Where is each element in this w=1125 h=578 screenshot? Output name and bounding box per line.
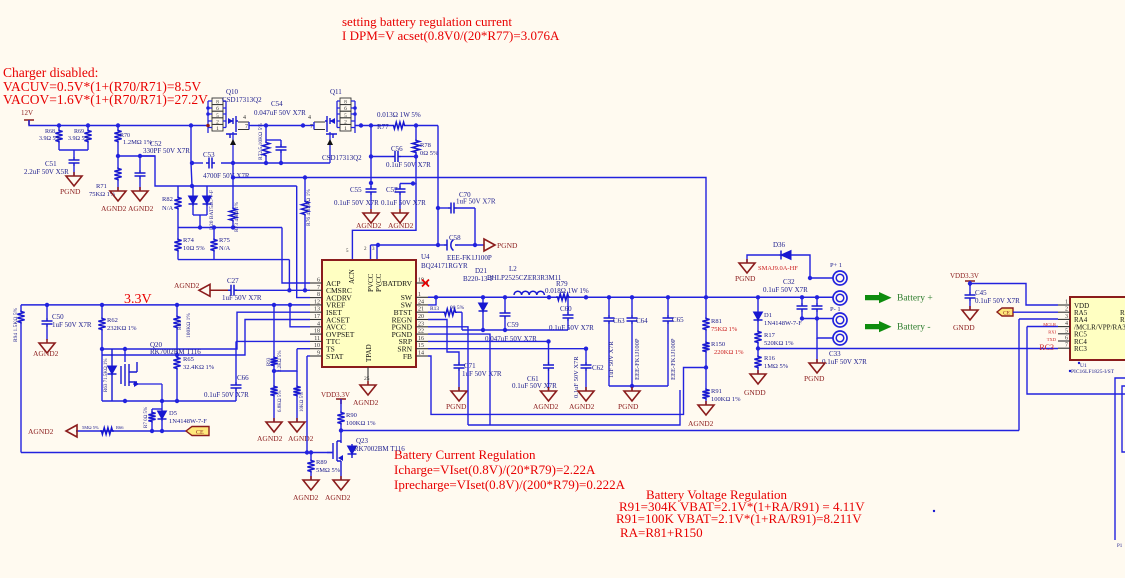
wire AVCC stub <box>290 305 310 327</box>
svg-text:75KΩ 1%: 75KΩ 1% <box>711 326 738 333</box>
svg-text:Battery Current Regulation: Battery Current Regulation <box>394 447 536 462</box>
svg-text:R91: R91 <box>711 388 722 395</box>
svg-text:4700F 50V X7R: 4700F 50V X7R <box>203 172 250 180</box>
capacitor C60 <box>567 297 569 312</box>
port CE tag left <box>186 427 209 436</box>
svg-text:0.018Ω 1W 1%: 0.018Ω 1W 1% <box>545 287 589 295</box>
svg-text:9: 9 <box>317 351 320 357</box>
svg-text:1uF 50V X7R: 1uF 50V X7R <box>52 321 92 329</box>
svg-text:PGND: PGND <box>60 187 81 196</box>
ground AGND2 R91 <box>705 401 707 405</box>
wire R78 to C57 <box>400 157 416 184</box>
wire FB to divider <box>428 356 706 414</box>
capacitor C64 <box>631 297 633 315</box>
connector P-2 <box>833 331 847 345</box>
svg-text:R66: R66 <box>116 425 124 430</box>
svg-text:3: 3 <box>1065 314 1068 320</box>
wire R77 node <box>406 125 438 127</box>
svg-text:RXI: RXI <box>1048 330 1056 335</box>
svg-text:C32: C32 <box>783 278 795 286</box>
ground AGND2 R89 <box>310 476 312 480</box>
ground AGND2 arrow at C27 <box>199 284 210 296</box>
svg-text:P+ 1: P+ 1 <box>830 262 842 269</box>
svg-text:EEE-FK1J100P: EEE-FK1J100P <box>447 254 492 262</box>
svg-text:00 5%: 00 5% <box>450 305 465 311</box>
svg-text:RA1: RA1 <box>1120 316 1125 324</box>
power port PGND right <box>484 239 495 251</box>
ground AGND2 C50 <box>46 339 48 343</box>
resistor R76 <box>304 178 306 201</box>
svg-text:232KΩ 1%: 232KΩ 1% <box>107 325 137 332</box>
capacitor C51 <box>69 157 80 166</box>
svg-text:0.1uF 50V X7R: 0.1uF 50V X7R <box>763 286 808 294</box>
svg-text:7: 7 <box>245 124 248 130</box>
svg-text:PIC16LF1825-I/ST: PIC16LF1825-I/ST <box>1071 369 1115 375</box>
wire Q20 source to D5 <box>161 401 163 409</box>
resistor R90 <box>340 399 342 411</box>
wire CE to RA5 <box>1013 311 1058 313</box>
ground AGND2 C57 <box>399 209 401 213</box>
capacitor C33 <box>816 297 818 303</box>
svg-text:330PF 50V X7R: 330PF 50V X7R <box>143 147 190 155</box>
svg-text:/BATDRV: /BATDRV <box>381 279 413 288</box>
capacitor C56 <box>371 156 392 158</box>
svg-text:N/A: N/A <box>162 205 174 212</box>
svg-text:CSD17313Q2: CSD17313Q2 <box>322 154 362 162</box>
svg-text:VDD3.3V: VDD3.3V <box>321 391 350 399</box>
svg-text:220KΩ 1%: 220KΩ 1% <box>714 349 744 356</box>
svg-text:1uF 50V X7R: 1uF 50V X7R <box>456 198 496 206</box>
svg-text:C55: C55 <box>350 186 362 194</box>
capacitor C63 <box>608 297 610 315</box>
svg-text:RC3: RC3 <box>1039 343 1054 352</box>
wire divider top y227 <box>178 227 282 229</box>
capacitor C62 <box>585 349 587 362</box>
svg-text:D5: D5 <box>169 410 177 417</box>
arrow Battery - <box>865 321 892 332</box>
svg-text:13: 13 <box>314 307 320 313</box>
svg-text:R71: R71 <box>96 183 107 190</box>
svg-text:N/A: N/A <box>219 245 231 252</box>
capacitor C50 <box>46 305 48 318</box>
wire rail to C53 node <box>191 126 192 187</box>
pin 25 TPAD <box>367 367 369 384</box>
svg-text:1.2MΩ 1%: 1.2MΩ 1% <box>123 139 153 146</box>
svg-text:R73 4.8Ω 1%: R73 4.8Ω 1% <box>234 201 240 232</box>
wire ACSET route <box>102 320 310 356</box>
ground AGND2 <box>117 187 119 191</box>
svg-text:TXD: TXD <box>1047 337 1057 342</box>
svg-text:PGND: PGND <box>618 402 639 411</box>
svg-text:C50: C50 <box>52 313 64 321</box>
resistor R89 <box>310 453 312 460</box>
svg-text:R150: R150 <box>711 341 725 348</box>
svg-text:U4: U4 <box>421 253 430 261</box>
resistor R81 <box>705 297 707 317</box>
transistor Q20 RK7002BM <box>102 349 125 401</box>
svg-text:EEE-FK1J100P: EEE-FK1J100P <box>670 338 677 380</box>
resistor R68 <box>58 126 60 130</box>
svg-text:0.1uF 50V X7R: 0.1uF 50V X7R <box>822 358 867 366</box>
power VDD3.3V Q23 <box>336 399 346 404</box>
svg-text:AGND2: AGND2 <box>388 221 414 230</box>
svg-text:15: 15 <box>418 343 424 349</box>
wire SW pin24 jog <box>428 297 436 305</box>
resistor R66 <box>100 428 114 435</box>
svg-text:FB: FB <box>403 352 412 361</box>
svg-text:STAT: STAT <box>326 352 344 361</box>
svg-text:P1: P1 <box>1117 544 1123 549</box>
svg-text:C45: C45 <box>975 289 987 297</box>
ground PGND cap bank <box>631 386 633 391</box>
ground PGND <box>73 172 75 176</box>
wire 3.3V rail <box>21 304 310 306</box>
wire BTST <box>461 312 463 330</box>
svg-text:AGND2: AGND2 <box>101 204 127 213</box>
svg-text:18: 18 <box>314 329 320 335</box>
wire AC sense line y177 <box>233 178 706 298</box>
ground AGND2 C61 <box>548 387 550 391</box>
ground AGND2 C55 <box>370 209 372 213</box>
svg-text:0.013Ω 1W 5%: 0.013Ω 1W 5% <box>377 111 421 119</box>
port CE tag right <box>997 308 1013 316</box>
svg-text:0.1uF 50V X7R: 0.1uF 50V X7R <box>549 324 594 332</box>
svg-text:EEE-FK1J100P: EEE-FK1J100P <box>634 338 641 380</box>
svg-text:I DPM=V acset(0.8V0/(20*R77)=3: I DPM=V acset(0.8V0/(20*R77)=3.076A <box>342 28 560 43</box>
svg-text:RK7002BM T116: RK7002BM T116 <box>150 348 201 356</box>
svg-text:1: 1 <box>344 126 347 132</box>
resistor R64 <box>176 305 178 315</box>
wire MCLR <box>1027 326 1058 328</box>
svg-text:R74: R74 <box>183 237 195 244</box>
svg-text:R62: R62 <box>107 317 118 324</box>
svg-text:5MΩ 5%: 5MΩ 5% <box>316 467 341 474</box>
svg-text:Icharge=VIset(0.8V)/(20*R79)=2: Icharge=VIset(0.8V)/(20*R79)=2.22A <box>394 462 596 477</box>
wire battery minus <box>802 318 833 320</box>
svg-text:100KΩ 1%: 100KΩ 1% <box>186 313 192 338</box>
svg-text:VACOV=1.6V*(1+(R70/R71)=27.2V: VACOV=1.6V*(1+(R70/R71)=27.2V <box>3 92 208 107</box>
wire VDD to PIC pin1 <box>969 281 971 292</box>
svg-text:Charger disabled:: Charger disabled: <box>3 65 98 80</box>
microcontroller U1 PIC16LF1825 <box>1070 297 1125 360</box>
op-amp U4 BQ24171RGYR main charger IC <box>322 260 416 367</box>
resistor R72 <box>265 126 267 142</box>
svg-text:32.4KΩ 1%: 32.4KΩ 1% <box>183 364 215 371</box>
svg-text:P- 1: P- 1 <box>830 306 841 313</box>
wire R90 to PIC RA4 <box>341 430 1019 432</box>
svg-text:setting battery regulation cur: setting battery regulation current <box>342 14 512 29</box>
resistor R13 <box>428 311 443 313</box>
resistor R82 <box>177 186 179 196</box>
svg-text:2.2uF 50V X5R: 2.2uF 50V X5R <box>24 168 69 176</box>
no-connect X on BATDRV <box>422 280 429 287</box>
capacitor C45 <box>965 292 976 301</box>
capacitor C32 <box>801 297 803 303</box>
svg-text:1N4148W-7-F: 1N4148W-7-F <box>169 418 207 425</box>
svg-text:R69: R69 <box>74 129 84 135</box>
wire ACN vertical <box>370 126 372 184</box>
svg-text:100KΩ 1%: 100KΩ 1% <box>711 396 741 403</box>
wire ACDRV feed <box>297 186 310 298</box>
svg-text:AGND2: AGND2 <box>288 434 314 443</box>
wire BTST bottom <box>462 329 568 331</box>
resistor R75 <box>213 228 215 239</box>
svg-text:10: 10 <box>314 343 320 349</box>
svg-text:Q10: Q10 <box>226 88 239 96</box>
diode D21 B220-13-F <box>482 297 484 303</box>
svg-text:C71: C71 <box>464 362 476 370</box>
wire R68/R69 junction <box>59 149 88 151</box>
svg-text:11: 11 <box>314 336 320 342</box>
resistor R73 <box>232 163 234 207</box>
stray mark <box>933 510 935 512</box>
svg-text:R64: R64 <box>177 321 183 330</box>
wire ACP feed <box>282 228 310 284</box>
svg-text:0.1uF 50V X7R: 0.1uF 50V X7R <box>381 199 426 207</box>
svg-text:1uF 50V X7R: 1uF 50V X7R <box>608 341 615 378</box>
svg-text:R7 0Ω 5%: R7 0Ω 5% <box>144 407 149 428</box>
svg-text:R65: R65 <box>183 356 194 363</box>
svg-text:20: 20 <box>418 314 424 320</box>
svg-text:0.1uF 50V X7R: 0.1uF 50V X7R <box>512 382 557 390</box>
svg-text:520KΩ 1%: 520KΩ 1% <box>764 340 794 347</box>
svg-text:R75: R75 <box>219 237 230 244</box>
svg-text:R68: R68 <box>45 129 55 135</box>
transistor Q10 CSD17313Q2 <box>206 98 238 163</box>
svg-text:L2: L2 <box>509 265 517 273</box>
wire 12V rail <box>29 120 207 126</box>
svg-text:R90: R90 <box>346 412 357 419</box>
svg-text:1uF 50V X7R: 1uF 50V X7R <box>222 294 262 302</box>
wire divider tap <box>704 365 708 369</box>
svg-text:R77: R77 <box>377 123 389 131</box>
svg-text:1: 1 <box>216 126 219 132</box>
svg-text:C56: C56 <box>391 145 403 153</box>
svg-text:C33: C33 <box>829 350 841 358</box>
connector P+2 <box>833 291 847 305</box>
ground AGND2 <box>139 187 141 191</box>
svg-text:1: 1 <box>418 292 421 298</box>
capacitor C55 <box>370 183 372 186</box>
wire CE net <box>76 430 186 432</box>
svg-text:R81: R81 <box>711 318 722 325</box>
wire bottom right A <box>1115 378 1125 540</box>
svg-text:PGND: PGND <box>804 374 825 383</box>
svg-text:ACN: ACN <box>348 269 356 284</box>
svg-text:Battery +: Battery + <box>897 294 933 304</box>
wire ACN net <box>352 184 416 261</box>
resistor R71 <box>117 156 119 167</box>
svg-text:21: 21 <box>418 307 424 313</box>
wire CMSRC feed <box>288 260 290 291</box>
svg-text:22: 22 <box>418 329 424 335</box>
svg-text:AGND2: AGND2 <box>293 493 319 502</box>
svg-text:3.9Ω 5%: 3.9Ω 5% <box>68 136 89 142</box>
svg-text:R93: R93 <box>267 357 272 366</box>
svg-text:PVCC: PVCC <box>367 273 375 292</box>
svg-text:AGND2: AGND2 <box>325 493 351 502</box>
capacitor C58 <box>438 244 444 246</box>
capacitor C53 <box>206 158 215 169</box>
wire PGND pin22 <box>428 334 490 425</box>
svg-text:0.1uF 50V X7R: 0.1uF 50V X7R <box>386 161 431 169</box>
svg-text:R17: R17 <box>764 332 776 339</box>
wire R82/D20 top <box>178 185 297 187</box>
pin 4/7 stubs Q10 <box>238 122 249 130</box>
ground PGND D36 <box>746 259 748 263</box>
svg-text:14: 14 <box>418 351 424 357</box>
capacitor C70 <box>438 207 448 209</box>
ground AGND2 arrow CE <box>66 425 77 437</box>
wire SRN to C62 <box>428 348 586 350</box>
svg-text:7: 7 <box>317 285 320 291</box>
svg-text:C63: C63 <box>613 317 625 325</box>
svg-text:AGND2: AGND2 <box>28 427 54 436</box>
pin 4/7 stubs Q11 <box>314 122 325 130</box>
capacitor C54 <box>280 140 282 144</box>
connector P+1 <box>833 271 847 285</box>
wire bottom right B <box>1122 386 1125 452</box>
svg-text:D1: D1 <box>764 312 772 319</box>
wire Q20 bottom <box>102 400 236 402</box>
resistor R92 <box>273 371 275 385</box>
svg-text:C66: C66 <box>237 374 249 382</box>
connector P-1 <box>833 313 847 327</box>
svg-text:PGND: PGND <box>735 274 756 283</box>
svg-text:GNDD: GNDD <box>953 323 975 332</box>
wire PGND pin23 <box>428 327 468 425</box>
svg-text:C62: C62 <box>592 364 604 372</box>
svg-text:CE: CE <box>1003 311 1011 317</box>
svg-text:R82: R82 <box>162 196 173 203</box>
svg-text:MCLR: MCLR <box>1043 322 1056 327</box>
resistor R94 <box>20 305 22 310</box>
resistor R62 <box>101 305 103 317</box>
wire rail Q10-Q11 <box>251 125 305 127</box>
svg-text:100KΩ 1%: 100KΩ 1% <box>346 420 376 427</box>
svg-text:17: 17 <box>314 314 320 320</box>
wire R70 node <box>116 154 120 158</box>
svg-text:R63 71.5KΩ 1%: R63 71.5KΩ 1% <box>104 358 109 392</box>
ground GNDD C45 <box>969 306 971 310</box>
svg-text:C51: C51 <box>45 160 57 168</box>
svg-text:16: 16 <box>418 336 424 342</box>
wire P-2 stub <box>817 319 833 339</box>
diode D20 BAT54C <box>192 186 194 196</box>
svg-text:12: 12 <box>314 299 320 305</box>
svg-text:RC3: RC3 <box>1074 345 1087 353</box>
power VDD3.3V right <box>965 281 975 286</box>
svg-text:4: 4 <box>1065 321 1068 327</box>
wire TS route <box>297 348 310 350</box>
resistor R16 <box>757 349 759 356</box>
svg-text:C59: C59 <box>507 321 519 329</box>
svg-text:23: 23 <box>418 321 424 327</box>
ground AGND2 Q23 <box>340 476 342 480</box>
resistor R70 <box>117 126 119 130</box>
svg-text:6: 6 <box>1065 336 1068 342</box>
power 12V <box>24 120 34 125</box>
svg-text:R76 4.02KΩ 1%: R76 4.02KΩ 1% <box>306 189 312 226</box>
svg-text:R94 1.5KΩ 5%: R94 1.5KΩ 5% <box>13 307 19 342</box>
svg-text:5: 5 <box>1065 328 1068 334</box>
capacitor C57 <box>399 184 401 187</box>
svg-text:C58: C58 <box>449 234 461 242</box>
svg-text:PGND: PGND <box>446 402 467 411</box>
svg-text:4: 4 <box>317 321 320 327</box>
svg-text:1N4148W-7-F: 1N4148W-7-F <box>764 320 802 327</box>
svg-text:0Ω 5%: 0Ω 5% <box>420 150 439 157</box>
svg-text:2.2KΩ 5%: 2.2KΩ 5% <box>278 351 283 373</box>
resistor R69 <box>87 126 89 130</box>
resistor R14 <box>296 371 298 385</box>
svg-text:TPAD: TPAD <box>365 344 373 362</box>
svg-text:D36: D36 <box>773 241 786 249</box>
svg-text:4: 4 <box>243 115 246 121</box>
svg-text:C65: C65 <box>672 316 684 324</box>
capacitor C65 <box>667 297 669 315</box>
svg-text:Q23: Q23 <box>356 437 369 445</box>
resistor R93 <box>273 305 275 356</box>
svg-text:0.047uF 50V X7R: 0.047uF 50V X7R <box>254 109 306 117</box>
ground AGND2 C62 <box>585 387 587 391</box>
svg-text:6.8KΩ 5%: 6.8KΩ 5% <box>278 391 283 413</box>
svg-text:AGND2: AGND2 <box>353 398 379 407</box>
zener diode Q20 gate <box>111 349 113 366</box>
svg-text:3.9Ω 5%: 3.9Ω 5% <box>39 136 60 142</box>
svg-text:AGND2: AGND2 <box>533 402 559 411</box>
svg-text:C57: C57 <box>386 186 398 194</box>
resistor R17 <box>754 330 761 344</box>
wire SW rail <box>428 296 833 298</box>
resistor R78 <box>415 126 417 140</box>
capacitor C27 <box>210 289 228 291</box>
diode D5 1N4148W <box>161 409 163 411</box>
transistor Q23 RK7002BM <box>340 431 342 442</box>
svg-text:8: 8 <box>317 292 320 298</box>
wire PVCC vertical <box>437 126 439 246</box>
resistor R79 <box>556 294 570 301</box>
svg-text:AGND2: AGND2 <box>257 434 283 443</box>
wire rail to R77 <box>355 125 392 127</box>
wire cap bank bottom <box>609 385 668 387</box>
svg-text:R78: R78 <box>420 142 431 149</box>
capacitor C66 <box>231 382 242 391</box>
wire REGN to C71 <box>428 320 459 363</box>
svg-text:1: 1 <box>1065 300 1068 306</box>
wire TTC to C66 <box>236 340 310 342</box>
wire PVCC pins <box>370 245 372 250</box>
svg-text:1MΩ 5%: 1MΩ 5% <box>764 363 789 370</box>
svg-text:0.1uF 50V X7R: 0.1uF 50V X7R <box>204 391 249 399</box>
svg-text:10KΩ 5%: 10KΩ 5% <box>300 392 305 412</box>
svg-text:25: 25 <box>364 376 370 382</box>
svg-text:Q11: Q11 <box>330 88 342 96</box>
svg-text:4: 4 <box>308 115 311 121</box>
wire SRP to C61 <box>428 340 549 342</box>
svg-text:12V: 12V <box>21 109 33 117</box>
capacitor C52 <box>139 156 141 170</box>
wire battery plus <box>810 277 833 279</box>
svg-text:6: 6 <box>317 278 320 284</box>
ground PGND battery <box>816 338 818 363</box>
resistor R7 <box>152 408 162 410</box>
svg-text:R13: R13 <box>430 306 439 312</box>
svg-text:C27: C27 <box>227 277 239 285</box>
svg-text:R91=100K VBAT=2.1V*(1+RA/R91)=: R91=100K VBAT=2.1V*(1+RA/R91)=8.211V <box>616 511 862 526</box>
wire C52 to D20 net <box>140 156 178 186</box>
resistor R91 <box>705 368 707 389</box>
